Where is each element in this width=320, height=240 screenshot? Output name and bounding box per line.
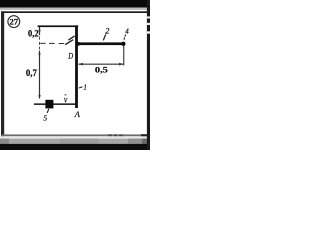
label 5 leader — [47, 109, 49, 113]
dimension arrow up (mid, 0,7 top) — [38, 50, 40, 54]
dashed level line at D — [40, 43, 45, 44]
ceiling line (top horizontal bar) — [38, 25, 79, 27]
velocity vector bar — [65, 94, 67, 96]
bottom light gap — [0, 136, 150, 138]
svg-text:4: 4 — [125, 28, 129, 36]
frame left border — [1, 11, 4, 136]
svg-text:D: D — [67, 52, 73, 61]
bottom gray bar — [0, 139, 150, 144]
block 5 (load) — [45, 100, 53, 109]
bottom black bar — [0, 144, 150, 150]
hinge hatching at D — [68, 36, 74, 40]
dimension line vertical 0,2 / 0,7 — [39, 27, 40, 35]
svg-text:A: A — [74, 110, 81, 119]
frame top border — [1, 11, 147, 13]
top gray band — [0, 8, 150, 10]
svg-text:1: 1 — [83, 83, 87, 92]
frame bottom border dark dashes — [108, 134, 112, 136]
dimension line 0,5 — [78, 64, 123, 65]
dimension arrow down (bottom) — [38, 95, 40, 99]
svg-text:0,2: 0,2 — [28, 30, 39, 40]
top black bar — [0, 0, 150, 8]
svg-text:27: 27 — [10, 18, 19, 27]
bar from D to node 4 — [76, 42, 123, 45]
dimension arrow up (top) — [38, 27, 40, 31]
flare at D end of bar — [76, 41, 84, 46]
rod 1 vertical (D to A) — [75, 25, 78, 108]
frame bottom border — [1, 134, 147, 136]
problem number badge circle 27 — [8, 16, 20, 28]
page background — [0, 0, 150, 150]
joint dot node 4 — [121, 42, 125, 46]
svg-text:2: 2 — [105, 25, 110, 35]
svg-text:0,7: 0,7 — [26, 69, 37, 79]
svg-text:5: 5 — [43, 114, 47, 123]
extension line from node 4 — [123, 46, 124, 66]
right edge strip — [147, 0, 150, 150]
label 1 leader — [79, 87, 83, 88]
label 4 leader — [124, 34, 127, 36]
string at A level — [34, 103, 77, 105]
svg-text:0,5: 0,5 — [95, 65, 109, 75]
label 2 leader — [103, 34, 105, 40]
